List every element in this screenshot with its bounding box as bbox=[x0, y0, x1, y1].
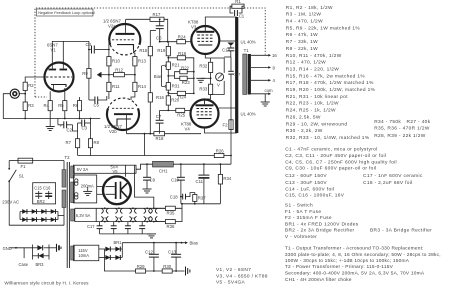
ground rail under input stage bbox=[15, 118, 101, 120]
svg-text:R3: R3 bbox=[28, 103, 34, 108]
wire R15 to R16 bbox=[149, 56, 151, 93]
wire C9 top bbox=[146, 164, 148, 177]
wire V3 screen UL tap bbox=[220, 40, 236, 42]
svg-text:V - Voltmeter: V - Voltmeter bbox=[285, 234, 317, 240]
svg-text:R18: R18 bbox=[156, 136, 164, 141]
BR3 wires bbox=[33, 255, 39, 257]
capacitor C14 bbox=[222, 48, 234, 53]
switch S1 bbox=[8, 168, 16, 182]
wire V4 plate to T1 bbox=[205, 128, 237, 133]
wire R9-C5 bbox=[89, 99, 95, 101]
svg-text:GND: GND bbox=[3, 246, 12, 251]
wiper join wire bbox=[161, 66, 163, 87]
BR1 left bbox=[103, 249, 105, 258]
T1 secondary tap bbox=[251, 66, 269, 68]
bias bottom wire right bbox=[172, 270, 184, 272]
svg-text:R29 - 10, 2W, wirewound: R29 - 10, 2W, wirewound bbox=[286, 121, 348, 127]
junction bbox=[24, 93, 26, 95]
resistor R7 bbox=[66, 139, 80, 148]
wire R1-C1 left bbox=[230, 6, 233, 13]
wire R9 down to C5 bbox=[88, 78, 90, 100]
capacitor C2 bbox=[64, 121, 73, 132]
svg-text:R26, 2,5k, 5W: R26, 2,5k, 5W bbox=[286, 114, 321, 120]
svg-text:R29: R29 bbox=[137, 264, 145, 269]
wire F2 to B+ rail bbox=[230, 130, 232, 156]
svg-text:R18: R18 bbox=[178, 51, 186, 56]
wire C2 to R7 branch bbox=[73, 125, 78, 131]
meter branch top bbox=[211, 58, 225, 73]
wire R15 tap bbox=[150, 29, 156, 31]
junction bbox=[79, 118, 81, 120]
junction bbox=[146, 163, 148, 165]
BR2 diode 4b bbox=[51, 217, 56, 222]
capacitor bbox=[97, 226, 103, 229]
wire R3 to ground rail bbox=[24, 111, 26, 119]
junction bbox=[146, 207, 148, 209]
heater V2 bbox=[115, 208, 122, 221]
capacitor bbox=[45, 193, 52, 197]
heater rail left close bbox=[74, 208, 76, 221]
capacitor bbox=[198, 175, 209, 179]
svg-text:10mA: 10mA bbox=[78, 253, 89, 258]
bias right vertical bbox=[186, 58, 194, 94]
heater cap lead bbox=[99, 222, 101, 226]
resistor R19 bbox=[157, 46, 170, 55]
capacitor C6 bbox=[156, 26, 164, 41]
svg-text:com: com bbox=[265, 88, 274, 93]
HT center tap stem bbox=[87, 187, 89, 191]
wire com to ground bbox=[264, 94, 266, 102]
resistor R33 bbox=[199, 84, 212, 94]
T2 primary winding lower bbox=[62, 190, 66, 208]
svg-text:R8: R8 bbox=[94, 140, 100, 145]
resistor R6 bbox=[73, 101, 82, 111]
BR1 wire bottom bbox=[104, 257, 122, 259]
junction bbox=[175, 270, 177, 272]
capacitor C1 bbox=[235, 10, 245, 19]
wire V2b plate to R18 bbox=[127, 130, 154, 134]
BR1 wire top bbox=[104, 248, 122, 250]
transformer T2 core bbox=[67, 162, 69, 268]
svg-text:R24: R24 bbox=[178, 35, 186, 40]
mains bottom wire bbox=[9, 181, 64, 225]
T1 secondary tap bbox=[251, 79, 269, 81]
capacitor bbox=[149, 254, 159, 257]
junction bbox=[104, 207, 106, 209]
T2 5V winding bbox=[71, 166, 75, 178]
transformer T1 secondary winding bbox=[248, 54, 251, 95]
heater V1 bbox=[101, 208, 108, 221]
capacitor C4 bbox=[86, 42, 95, 54]
wire CH1 to B+ node bbox=[173, 163, 231, 165]
triode V2a (1/2 6SN7) bbox=[109, 20, 140, 55]
BR2 left join bbox=[19, 212, 21, 220]
resistor R24 bbox=[177, 35, 186, 44]
svg-text:C13: C13 bbox=[168, 249, 176, 254]
pot wiper R31 bbox=[162, 85, 167, 87]
V5 plate lead 2 bbox=[97, 193, 103, 195]
6.3V box right edge bbox=[95, 208, 97, 221]
junction bbox=[167, 75, 169, 77]
transformer T1 primary winding bbox=[243, 54, 247, 95]
wire R6 to rail bbox=[79, 111, 81, 119]
voltmeter V bbox=[216, 73, 224, 81]
wire V2a plate to R17 bbox=[126, 18, 151, 20]
C15 leads bbox=[38, 191, 40, 199]
resistor R36 bbox=[165, 220, 175, 229]
HT winding symbols bbox=[75, 179, 78, 199]
heater cap lead bbox=[127, 222, 129, 226]
bias bottom wire mid bbox=[146, 270, 163, 272]
svg-text:BR1: BR1 bbox=[114, 240, 123, 245]
svg-text:V5 - 5V4GA: V5 - 5V4GA bbox=[216, 280, 246, 286]
wire C3 to R7 bbox=[77, 123, 79, 139]
wire C2 up bbox=[57, 119, 59, 125]
wire to R12 left bbox=[109, 74, 114, 76]
wire down to R15 bbox=[149, 30, 151, 46]
box HT 400V bbox=[73, 175, 96, 203]
C13 bottom lead bbox=[175, 257, 177, 271]
capacitor C7 bbox=[156, 114, 164, 123]
wire V1 left plate up bbox=[52, 41, 63, 62]
svg-text:5V 2A: 5V 2A bbox=[77, 167, 89, 172]
resistor R29 bbox=[136, 264, 146, 273]
heater cap common rail bbox=[100, 233, 152, 235]
svg-text:R23: R23 bbox=[182, 80, 190, 85]
BR2 diode 4a bbox=[51, 209, 56, 214]
heater V3 bbox=[130, 208, 137, 221]
wire C4 to V2a grid node bbox=[95, 49, 109, 51]
svg-text:R28, R39 - 22k 1/2W: R28, R39 - 22k 1/2W bbox=[374, 133, 426, 139]
T1 tap arrowhead bbox=[268, 54, 271, 57]
svg-text:R9: R9 bbox=[82, 71, 88, 76]
ground C9 bbox=[143, 189, 152, 193]
box 5V supply bbox=[73, 165, 136, 173]
ground above C14 bbox=[227, 43, 234, 46]
wire R22 right bbox=[187, 71, 194, 73]
NFB loop note box bbox=[37, 9, 94, 16]
junction bbox=[180, 196, 182, 198]
BR3 diode a bbox=[37, 245, 42, 250]
resistor R25 bbox=[176, 108, 186, 117]
wire to ground bbox=[201, 77, 211, 79]
svg-text:R16: R16 bbox=[156, 95, 164, 100]
wire R7 to rail bbox=[77, 148, 79, 156]
pot wiper R21 bbox=[162, 65, 167, 67]
wire C14 node down bbox=[230, 57, 232, 71]
svg-text:R30: R30 bbox=[163, 264, 171, 269]
T2 HT winding bbox=[71, 182, 75, 203]
wire jack to R2/R3 node bbox=[19, 93, 25, 95]
svg-text:C6: C6 bbox=[156, 36, 162, 41]
wire V1 plate to C4 bbox=[63, 41, 91, 62]
svg-text:CH1: CH1 bbox=[159, 168, 168, 173]
svg-text:F2 - 315mA F Fuse: F2 - 315mA F Fuse bbox=[285, 215, 332, 221]
svg-text:V3: V3 bbox=[131, 216, 135, 220]
T1 tap arrowhead bbox=[268, 66, 271, 69]
svg-text:C17: C17 bbox=[87, 224, 95, 229]
wire BR3 to chassis cap bbox=[49, 247, 56, 249]
BR1 to R29 bbox=[104, 258, 135, 272]
B+ rail right end bbox=[224, 155, 231, 157]
svg-text:C14 - 1uF, 600V foil: C14 - 1uF, 600V foil bbox=[285, 187, 334, 193]
heater cap lead low bbox=[99, 229, 101, 234]
wire jack sleeve down bbox=[3, 94, 15, 119]
resistor R31 bbox=[166, 83, 180, 91]
junction bbox=[134, 74, 136, 76]
svg-text:Bias: Bias bbox=[190, 241, 198, 246]
wire C7 top tap bbox=[160, 109, 169, 111]
svg-text:F1: F1 bbox=[21, 164, 27, 169]
wire C11 bottom bbox=[203, 178, 205, 204]
BR2 diode 3a bbox=[41, 209, 46, 214]
wire rail to R8 bbox=[90, 119, 92, 139]
svg-text:R33: R33 bbox=[199, 87, 207, 92]
junction bbox=[132, 207, 134, 209]
heater V5 bbox=[150, 208, 157, 221]
heater cap lead bbox=[141, 222, 143, 226]
resistor R34 bbox=[218, 174, 232, 184]
heater cap lead low bbox=[127, 229, 129, 234]
svg-text:R25: R25 bbox=[177, 113, 185, 118]
resistor R24 bbox=[177, 91, 186, 99]
wire C3 right bbox=[85, 122, 91, 124]
svg-text:R13, R14 - 220, 1/2W: R13, R14 - 220, 1/2W bbox=[286, 66, 340, 72]
capacitor bbox=[228, 71, 234, 74]
junction bbox=[203, 163, 205, 165]
wire C6 bottom down bbox=[159, 29, 161, 42]
wire R24 to V3 grid bbox=[185, 41, 191, 43]
T2 primary top lead bbox=[63, 161, 65, 170]
svg-text:T1 - Output Transformer - Acro: T1 - Output Transformer - Acrosound TO-3… bbox=[285, 246, 424, 252]
svg-text:R1: R1 bbox=[235, 0, 241, 4]
svg-text:R12: R12 bbox=[115, 68, 123, 73]
C18 left lead bbox=[181, 196, 183, 198]
svg-text:R24: R24 bbox=[178, 95, 186, 100]
svg-text:R26: R26 bbox=[216, 148, 224, 153]
svg-text:C11: C11 bbox=[196, 179, 204, 184]
C16 leads bbox=[48, 191, 50, 199]
junction bbox=[167, 92, 169, 94]
wire C10 top bbox=[180, 164, 182, 177]
svg-text:C1 - 47nF ceramic, mica or pol: C1 - 47nF ceramic, mica or polystyrol bbox=[285, 146, 377, 152]
svg-text:R15, R16 - 47k, 2w matched 1%: R15, R16 - 47k, 2w matched 1% bbox=[286, 73, 366, 79]
wire R2 to V1 grid bbox=[25, 77, 45, 82]
wire R8 to rail bbox=[90, 148, 92, 156]
wire R32-R33 bbox=[210, 73, 212, 85]
C18 to R37 bbox=[186, 193, 195, 197]
wire C10 bottom bbox=[180, 180, 182, 204]
mains left down bbox=[8, 161, 10, 169]
svg-text:Negative Feedback Loop optiona: Negative Feedback Loop optional bbox=[38, 11, 95, 15]
junction bbox=[175, 242, 177, 244]
heater cap lead low bbox=[141, 229, 143, 234]
ground below R4 bbox=[46, 127, 55, 131]
wire grid feed V3 bbox=[160, 41, 177, 43]
svg-text:R15: R15 bbox=[139, 48, 147, 53]
svg-text:V1: V1 bbox=[103, 216, 107, 220]
resistor R14 bbox=[133, 82, 147, 91]
NFB dashed wire to cathode bbox=[35, 96, 47, 98]
svg-text:F1 - 5A T Fuse: F1 - 5A T Fuse bbox=[285, 209, 321, 215]
svg-text:R35: R35 bbox=[167, 211, 175, 216]
wire through jack node bbox=[24, 91, 26, 103]
capacitor bbox=[111, 226, 117, 229]
BR2 row1 wire bbox=[20, 211, 58, 213]
wire B+ rail to CH1 line bbox=[230, 156, 232, 165]
capacitor bbox=[171, 254, 181, 257]
junction bbox=[64, 118, 66, 120]
wire to lower R24 bbox=[168, 92, 177, 94]
svg-text:R3 - 1M, 1/2W: R3 - 1M, 1/2W bbox=[286, 12, 322, 18]
B+ rail bbox=[78, 155, 215, 157]
BR2 to T2 bbox=[58, 215, 64, 217]
junction bbox=[180, 163, 182, 165]
input jack J1 bbox=[10, 89, 19, 98]
junction bbox=[88, 49, 90, 51]
wire C11 top bbox=[203, 164, 205, 175]
svg-text:C5: C5 bbox=[94, 103, 100, 108]
svg-text:R7 - 33k, 1W: R7 - 33k, 1W bbox=[286, 39, 318, 45]
wire R34 bottom bbox=[219, 184, 221, 204]
wire R13 to R14 bbox=[134, 66, 136, 82]
fuse F1 bbox=[18, 158, 33, 163]
svg-text:V2a: V2a bbox=[108, 24, 116, 29]
heater cap lead bbox=[113, 222, 115, 226]
chassis cap bbox=[57, 244, 62, 252]
resistor R2 bbox=[23, 82, 34, 90]
ground at T1 com bbox=[261, 102, 270, 106]
wire C7 down to R18 bbox=[159, 123, 161, 134]
wire V1 cathode to R4 bbox=[49, 91, 51, 100]
rail to R36 bbox=[154, 221, 166, 223]
svg-text:C4, C5, C6, C7 - 250nF 600V hi: C4, C5, C6, C7 - 250nF 600V high quality… bbox=[285, 159, 397, 165]
junction bbox=[153, 270, 155, 272]
resistor R20 bbox=[166, 96, 180, 105]
svg-text:R2: R2 bbox=[28, 83, 34, 88]
svg-text:R36: R36 bbox=[167, 224, 175, 229]
svg-text:C3: C3 bbox=[82, 126, 88, 131]
wire between pots bbox=[167, 69, 169, 82]
BR1 up bbox=[121, 243, 123, 249]
svg-text:V3: V3 bbox=[191, 25, 197, 30]
svg-text:C2, C3, C11 - 20uF 450V paper-: C2, C3, C11 - 20uF 450V paper-oil or foi… bbox=[285, 153, 386, 159]
BR2 right join bbox=[57, 212, 59, 220]
BR3 diode b bbox=[38, 253, 43, 258]
svg-text:115V: 115V bbox=[78, 248, 88, 253]
junction bbox=[24, 118, 26, 120]
T1 secondary tap bbox=[251, 93, 269, 95]
wire B+ to CH1 bbox=[136, 164, 153, 169]
svg-text:C7: C7 bbox=[156, 114, 162, 119]
resistor R13 bbox=[133, 57, 147, 66]
wire C9 bottom bbox=[146, 180, 148, 189]
T1 secondary tap bbox=[251, 54, 269, 56]
wire R18 to V4 side bbox=[165, 132, 201, 135]
svg-text:R4: R4 bbox=[44, 103, 50, 108]
wire V2a cathode down bbox=[133, 50, 135, 53]
junction bbox=[167, 41, 169, 43]
ground heater caps bbox=[147, 234, 156, 238]
heater cap lead low bbox=[113, 229, 115, 234]
svg-text:V2b: V2b bbox=[109, 129, 117, 134]
svg-text:UL 40%: UL 40% bbox=[241, 40, 256, 45]
T2 primary winding upper bbox=[62, 170, 66, 188]
svg-text:V2: V2 bbox=[117, 216, 121, 220]
junction bbox=[90, 118, 92, 120]
svg-text:R13: R13 bbox=[138, 59, 146, 64]
junction bbox=[153, 221, 155, 223]
wire R34 top bbox=[219, 164, 221, 174]
svg-text:CH1 - 4H 200mA filter choke: CH1 - 4H 200mA filter choke bbox=[285, 277, 352, 283]
svg-text:T2: T2 bbox=[65, 155, 71, 160]
wire R31 to R20 bbox=[167, 90, 169, 96]
svg-text:C1: C1 bbox=[239, 14, 245, 19]
wire R11 to V2b bbox=[108, 92, 110, 99]
V5 plate lead 1 bbox=[97, 186, 103, 188]
NFB dashed wire right bbox=[244, 8, 265, 55]
BR3 wires bbox=[43, 255, 49, 257]
wire R25 to V4 grid bbox=[185, 109, 191, 111]
wire mid to R23 bbox=[175, 76, 180, 78]
junction bbox=[132, 221, 134, 223]
pentode V4 (KT88) bbox=[191, 99, 219, 128]
junction bbox=[159, 41, 161, 43]
wire R10 to R11 bbox=[108, 66, 110, 82]
resistor R16 bbox=[148, 93, 164, 102]
junction bbox=[153, 207, 155, 209]
resistor R26 bbox=[214, 148, 224, 157]
svg-text:R19, R20 - 100k, 1/2W, matched: R19, R20 - 100k, 1/2W, matched 1% bbox=[286, 87, 376, 93]
resistor R9 bbox=[82, 69, 91, 79]
junction bbox=[146, 221, 148, 223]
wire R20 to R25 bbox=[168, 105, 176, 110]
wire R17 right down bbox=[164, 19, 168, 41]
svg-text:R6: R6 bbox=[73, 103, 79, 108]
ground arrow left of R11 bbox=[97, 72, 102, 78]
svg-text:R30 - 2,2k, 2W: R30 - 2,2k, 2W bbox=[286, 128, 323, 134]
wire V4 screen UL tap bbox=[219, 107, 236, 109]
svg-text:+: + bbox=[60, 124, 63, 129]
wire R4 to ground bbox=[49, 111, 51, 119]
svg-text:V5: V5 bbox=[113, 169, 119, 174]
svg-text:R34: R34 bbox=[223, 176, 231, 181]
wire to F2 bbox=[230, 75, 232, 120]
svg-text:V1, V2 - 6SN7: V1, V2 - 6SN7 bbox=[216, 267, 251, 273]
svg-text:Case: Case bbox=[19, 262, 29, 267]
T1 tap arrowhead bbox=[268, 79, 271, 82]
capacitor bbox=[183, 194, 186, 200]
svg-text:C12 - 60uF 150V: C12 - 60uF 150V bbox=[285, 173, 327, 179]
fuse F2 bbox=[229, 120, 233, 130]
svg-text:C14: C14 bbox=[222, 48, 230, 53]
svg-text:V: V bbox=[217, 83, 220, 88]
wire C3 left bbox=[78, 122, 82, 124]
R35/R36 join bbox=[175, 208, 182, 221]
wire C5 right up bbox=[98, 96, 107, 100]
heater rail bottom bbox=[75, 221, 166, 223]
junction bbox=[167, 110, 169, 112]
choke CH1 bbox=[153, 161, 174, 167]
junction bbox=[167, 57, 169, 59]
BR1 diode 4 bbox=[115, 255, 120, 260]
junction bbox=[144, 133, 146, 135]
wire pots mid to R22 bbox=[168, 72, 180, 76]
wire to ground arrow bbox=[99, 74, 109, 76]
BR2 diode 2a bbox=[32, 209, 37, 214]
resistor R21 bbox=[166, 62, 180, 70]
svg-text:16: 16 bbox=[272, 53, 277, 58]
